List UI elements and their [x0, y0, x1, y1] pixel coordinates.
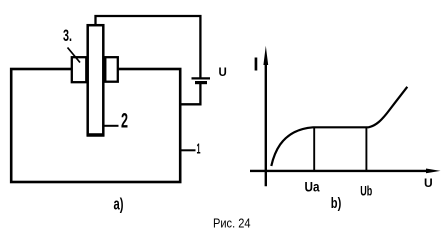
svg-text:2: 2 [121, 109, 128, 132]
tube thick bottom [87, 133, 105, 137]
svg-text:1: 1 [197, 140, 201, 157]
U axis (horizontal) [250, 170, 428, 172]
label 3 leader line [68, 48, 81, 63]
battery U short plate [195, 81, 207, 84]
battery bottom wire [179, 84, 200, 104]
tube (capillary 2) [88, 25, 104, 135]
I axis arrowhead [263, 46, 268, 65]
I-U curve [271, 87, 407, 166]
label 2 leader line [104, 125, 119, 127]
U axis arrowhead [426, 169, 441, 174]
battery U long plate [192, 77, 211, 79]
svg-text:a): a) [114, 195, 124, 214]
I axis (vertical) [265, 60, 267, 186]
svg-text:b): b) [331, 195, 342, 212]
svg-text:Рис. 24: Рис. 24 [213, 217, 251, 231]
chamber box (vessel 1) [11, 69, 180, 182]
Ua vertical line [313, 128, 315, 171]
electrode right [105, 57, 118, 81]
electrode left (3) [72, 57, 87, 82]
Ub vertical line [365, 128, 367, 171]
label 1 leader line [180, 149, 196, 151]
svg-text:U: U [424, 176, 433, 190]
wire from tube top to battery top [96, 16, 201, 78]
svg-text:3.: 3. [63, 26, 72, 45]
svg-text:Ua: Ua [305, 179, 320, 195]
svg-text:Ub: Ub [360, 182, 372, 198]
svg-text:I: I [253, 53, 258, 74]
svg-text:U: U [219, 67, 227, 79]
